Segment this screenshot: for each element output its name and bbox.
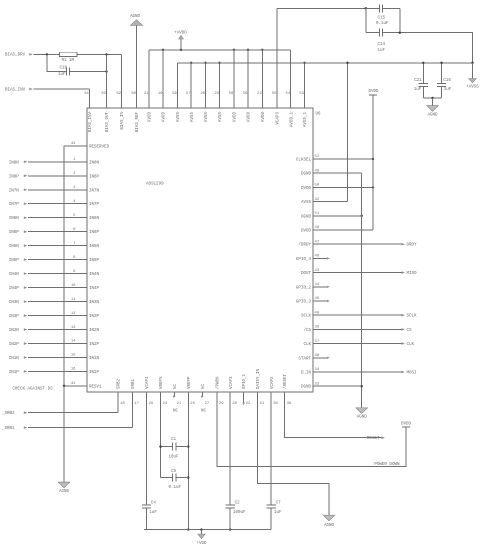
wire CLK out	[313, 342, 415, 347]
capacitor C14	[366, 29, 400, 53]
label POWER DOWN	[374, 463, 400, 467]
svg-text:AVSS: AVSS	[177, 112, 181, 123]
power +AVDD	[174, 31, 187, 49]
svg-text:CLK: CLK	[407, 343, 415, 347]
port IN4N	[9, 272, 87, 277]
svg-text:31: 31	[260, 402, 265, 406]
port IN8P	[9, 174, 87, 179]
port IN8N	[9, 160, 87, 165]
svg-text:18: 18	[120, 402, 125, 406]
wire GPIO_4 stub	[313, 257, 330, 259]
svg-text:D_IN: D_IN	[301, 372, 312, 376]
svg-text:VCAP2: VCAP2	[271, 376, 275, 389]
svg-text:GPIO_1: GPIO_1	[243, 373, 247, 389]
port IN5N	[9, 244, 87, 249]
svg-text:R1 1M: R1 1M	[62, 59, 75, 63]
node VDD rail bottom	[144, 528, 271, 530]
svg-text:0.1uF: 0.1uF	[376, 22, 389, 26]
svg-text:/CS: /CS	[303, 328, 311, 333]
port _SRB1	[1, 426, 132, 431]
svg-text:IN2N: IN2N	[9, 329, 20, 333]
svg-text:55: 55	[272, 92, 277, 96]
svg-text:63: 63	[101, 92, 106, 96]
svg-text:DGND: DGND	[301, 173, 312, 177]
svg-text:+AVDD: +AVDD	[174, 31, 187, 35]
svg-text:SRB2: SRB2	[118, 378, 122, 389]
wire PWDN	[217, 392, 406, 466]
svg-text:IN7P: IN7P	[9, 203, 20, 207]
svg-text:CLK: CLK	[303, 343, 311, 347]
port BIAS_INV	[5, 88, 33, 93]
svg-text:NC: NC	[202, 383, 206, 389]
wire pin 20	[204, 62, 206, 108]
wire D_IN out	[313, 371, 417, 376]
svg-text:59: 59	[243, 92, 248, 96]
wire pin 63	[106, 54, 108, 108]
svg-text:AGND: AGND	[357, 416, 368, 420]
svg-text:IN6N: IN6N	[9, 217, 20, 221]
svg-text:17: 17	[134, 402, 139, 406]
ground AGND bottom-left	[58, 482, 70, 494]
svg-text:CHECK AGAINST DS: CHECK AGAINST DS	[12, 387, 53, 391]
capacitor C16	[437, 62, 452, 98]
svg-text:IN6N: IN6N	[89, 217, 100, 221]
capacitor C1	[159, 438, 188, 459]
svg-text:IN3N: IN3N	[9, 301, 20, 305]
pin NC marks	[173, 392, 207, 413]
svg-text:C16: C16	[443, 79, 451, 83]
svg-text:61: 61	[84, 92, 89, 96]
svg-text:AVDD: AVDD	[163, 112, 167, 123]
svg-text:60: 60	[131, 92, 136, 96]
svg-text:IN3N: IN3N	[89, 301, 100, 305]
wire SCLK out	[313, 314, 417, 319]
wire pin 55 to C15/C14	[276, 8, 278, 108]
svg-text:IN7N: IN7N	[9, 189, 20, 193]
svg-text:ADS1299: ADS1299	[146, 183, 164, 187]
port _SRB2	[1, 411, 118, 416]
svg-text:100uF: 100uF	[233, 511, 246, 515]
svg-text:0.1uF: 0.1uF	[169, 486, 182, 490]
wire pin 56	[233, 49, 235, 108]
wire DGND33	[313, 385, 362, 387]
svg-text:IN2P: IN2P	[89, 343, 100, 347]
svg-text:36: 36	[287, 402, 292, 406]
svg-text:56: 56	[229, 92, 234, 96]
wire C14 to AVSS rail	[399, 32, 474, 65]
wire /DRDY out	[313, 243, 417, 248]
wire AVSS32	[313, 62, 349, 202]
capacitor C5	[161, 470, 189, 490]
port BIAS_DRV	[5, 53, 33, 57]
svg-text:AVSS_1: AVSS_1	[304, 112, 308, 128]
svg-text:_SRB1: _SRB1	[1, 427, 15, 431]
svg-text:SRB1: SRB1	[132, 378, 136, 389]
svg-text:AVSS: AVSS	[205, 112, 209, 123]
svg-text:22: 22	[246, 402, 251, 406]
svg-text:IN1N: IN1N	[89, 357, 100, 361]
wire VREFP	[187, 392, 189, 531]
svg-text:DGND: DGND	[301, 215, 312, 219]
wire /CS out	[313, 328, 412, 333]
svg-text:BIAS_DRV: BIAS_DRV	[5, 53, 26, 57]
wire pin 22	[261, 49, 263, 108]
ground AGND top-left	[130, 15, 143, 26]
capacitor C1b	[58, 66, 107, 77]
svg-text:SCLK: SCLK	[407, 315, 418, 319]
svg-text:GPIO_4: GPIO_4	[296, 258, 312, 262]
port IN6N	[9, 216, 87, 221]
svg-text:AGND: AGND	[427, 114, 438, 118]
svg-text:RESV1: RESV1	[89, 386, 102, 390]
svg-text:BIAS_IN: BIAS_IN	[121, 112, 125, 130]
svg-text:IN1P: IN1P	[89, 371, 100, 375]
svg-text:IN2P: IN2P	[9, 343, 20, 347]
wire VCAP2 to C7	[270, 392, 272, 504]
port IN7N	[9, 188, 87, 193]
svg-text:IN4N: IN4N	[9, 273, 20, 277]
svg-text:IN6P: IN6P	[9, 231, 20, 235]
svg-text:U6: U6	[316, 113, 322, 117]
svg-text:DGND: DGND	[301, 386, 312, 390]
wire pin 61	[89, 89, 91, 108]
svg-text:AGND: AGND	[324, 524, 335, 528]
wire DAISY_IN to AGND	[258, 392, 330, 515]
wire DGND51	[313, 215, 363, 217]
wire pin 23	[218, 62, 220, 108]
wire GPIO_2 stub	[313, 286, 330, 288]
svg-text:BIAS_REF: BIAS_REF	[136, 112, 140, 133]
svg-text:62: 62	[116, 92, 121, 96]
wire VCAP1 to C2	[229, 392, 231, 504]
svg-text:C2: C2	[235, 501, 241, 505]
svg-text:28: 28	[232, 402, 237, 406]
wire RESET out	[285, 392, 385, 441]
svg-text:VCAP1: VCAP1	[230, 376, 234, 389]
svg-text:RESET: RESET	[367, 437, 380, 441]
svg-text:C1: C1	[171, 438, 177, 442]
ground AGND daisy	[323, 515, 335, 528]
svg-text:MISO: MISO	[407, 272, 418, 276]
wire pin 54	[290, 50, 292, 108]
wire C1b to node	[105, 70, 107, 72]
port IN4P	[9, 286, 87, 291]
svg-text:23: 23	[214, 92, 219, 96]
capacitor C2	[226, 501, 246, 530]
wire DVDD48	[313, 229, 373, 231]
wire pin 53	[303, 62, 305, 108]
svg-text:C7: C7	[276, 501, 282, 505]
resistor R1	[60, 52, 78, 63]
wire SRB1	[131, 392, 133, 428]
svg-text:IN1N: IN1N	[9, 357, 20, 361]
svg-text:IN4N: IN4N	[89, 273, 100, 277]
svg-text:IN6P: IN6P	[89, 231, 100, 235]
svg-text:IN3P: IN3P	[9, 315, 20, 319]
svg-text:IN8P: IN8P	[89, 175, 100, 179]
svg-text:POWER DOWN: POWER DOWN	[374, 463, 400, 467]
wire pin 21	[148, 50, 150, 108]
svg-text:AVDD: AVDD	[248, 112, 252, 123]
svg-text:IN4P: IN4P	[9, 287, 20, 291]
svg-text:19: 19	[158, 92, 163, 96]
wire BIAS_DRV to R1	[34, 53, 60, 55]
wire pin 55 top	[277, 7, 367, 9]
wire RESERVED	[64, 146, 87, 386]
capacitor C15	[366, 4, 400, 26]
port IN3N	[9, 300, 87, 305]
svg-text:+VDD: +VDD	[196, 542, 207, 546]
power +AVSS	[466, 63, 479, 90]
svg-text:DRDY: DRDY	[407, 244, 418, 248]
svg-text:NC: NC	[201, 409, 207, 413]
svg-text:1uF: 1uF	[378, 49, 386, 53]
svg-text:1uF: 1uF	[149, 511, 157, 515]
svg-text:NC: NC	[173, 409, 179, 413]
capacitor C7	[267, 501, 282, 529]
svg-text:SCLK: SCLK	[301, 315, 312, 319]
svg-text:RESERVED: RESERVED	[89, 146, 110, 150]
node AVSS rail	[177, 62, 472, 64]
wire CLKSEL	[313, 158, 374, 160]
wire pin 58	[176, 63, 178, 108]
wire GPIO_3 stub	[313, 300, 330, 302]
svg-text:GPIO_2: GPIO_2	[296, 286, 312, 290]
svg-text:IN8P: IN8P	[9, 175, 20, 179]
svg-text:IN8N: IN8N	[89, 161, 100, 165]
wire VCAP4 to C4	[146, 392, 148, 504]
port IN2N	[9, 328, 87, 333]
wire DVDD50	[313, 186, 374, 188]
svg-text:AVDD: AVDD	[233, 112, 237, 123]
svg-text:+AVSS: +AVSS	[466, 86, 479, 90]
svg-text:BIAS_OUT: BIAS_OUT	[106, 112, 110, 133]
wire C14 left	[365, 8, 367, 32]
power DVDD tag bottom	[401, 423, 412, 428]
svg-text:IN7P: IN7P	[89, 203, 100, 207]
wire BIAS_INV to pin 61	[34, 88, 90, 90]
svg-text:C4: C4	[151, 501, 157, 505]
svg-text:1uF: 1uF	[274, 511, 282, 515]
svg-text:/DRDY: /DRDY	[298, 243, 311, 248]
node AVDD rail	[149, 49, 291, 51]
note CHECK AGAINST DS	[12, 387, 53, 391]
svg-text:_SRB2: _SRB2	[1, 412, 15, 416]
wire RESV1	[63, 385, 87, 483]
svg-text:22: 22	[257, 92, 262, 96]
wire pin 60 to AGND	[136, 25, 138, 108]
svg-text:IN1P: IN1P	[9, 371, 20, 375]
wire R1 to pin 62	[77, 53, 121, 55]
svg-text:/RESET: /RESET	[283, 373, 288, 389]
wire GPIO_1 stub	[242, 392, 244, 405]
port IN5P	[9, 258, 87, 263]
svg-text:START: START	[298, 357, 311, 361]
svg-text:IN4P: IN4P	[89, 287, 100, 291]
svg-text:C14: C14	[378, 43, 386, 47]
svg-text:26: 26	[149, 402, 154, 406]
svg-text:GPIO_3: GPIO_3	[296, 301, 312, 305]
svg-text:CLKSEL: CLKSEL	[296, 159, 312, 163]
svg-text:DVDD: DVDD	[301, 187, 312, 191]
svg-text:30: 30	[273, 402, 278, 406]
power +VDD	[196, 530, 207, 546]
svg-text:1uF: 1uF	[414, 88, 422, 92]
wire C15 right	[399, 8, 401, 32]
svg-text:AGND: AGND	[130, 15, 141, 19]
svg-text:AVSS: AVSS	[191, 112, 195, 123]
svg-text:MOSI: MOSI	[407, 372, 418, 376]
port IN6P	[9, 230, 87, 235]
svg-text:VCAP4: VCAP4	[146, 376, 150, 389]
port IN1N	[9, 356, 87, 361]
svg-text:C15: C15	[378, 16, 386, 20]
wire C1b branch	[47, 54, 65, 71]
svg-text:VREFN: VREFN	[160, 376, 164, 389]
ground AGND right	[356, 408, 368, 420]
svg-text:29: 29	[219, 402, 224, 406]
svg-text:21: 21	[144, 92, 149, 96]
svg-text:IN8N: IN8N	[9, 161, 20, 165]
svg-text:24: 24	[163, 402, 168, 406]
svg-text:IN3P: IN3P	[89, 315, 100, 319]
svg-text:20: 20	[200, 92, 205, 96]
svg-text:BIAS_INV: BIAS_INV	[89, 112, 93, 133]
wire caps join	[423, 97, 441, 99]
svg-text:54: 54	[286, 92, 291, 96]
svg-text:NC: NC	[174, 383, 178, 389]
ground AGND top-right	[427, 106, 439, 118]
wire START stub	[313, 357, 330, 359]
wire to AGND	[432, 98, 434, 106]
capacitor C21	[414, 62, 428, 98]
svg-text:C21: C21	[414, 79, 422, 83]
svg-text:25: 25	[190, 402, 195, 406]
svg-text:DVDD: DVDD	[368, 90, 379, 94]
svg-text:1uF: 1uF	[444, 88, 452, 92]
svg-text:58: 58	[172, 92, 177, 96]
port IN7P	[9, 202, 87, 207]
net DGND vertical	[361, 173, 363, 408]
capacitor C4	[142, 501, 157, 529]
svg-text:IN5N: IN5N	[9, 245, 20, 249]
svg-text:C1b: C1b	[60, 66, 68, 71]
svg-text:IN2N: IN2N	[89, 329, 100, 333]
svg-text:21: 21	[177, 402, 182, 406]
svg-text:DAISY_IN: DAISY_IN	[257, 368, 261, 389]
wire DGND49	[313, 172, 362, 174]
svg-text:AGND: AGND	[59, 490, 70, 494]
svg-text:AVSS: AVSS	[219, 112, 223, 123]
svg-text:53: 53	[299, 92, 304, 96]
port IN3P	[9, 314, 87, 319]
svg-text:1uF: 1uF	[58, 73, 66, 77]
svg-text:27: 27	[205, 402, 210, 406]
svg-text:VREFP: VREFP	[188, 376, 192, 389]
svg-text:BIAS_INV: BIAS_INV	[5, 89, 26, 93]
svg-text:C5: C5	[171, 470, 177, 474]
svg-text:DOUT: DOUT	[301, 272, 312, 276]
svg-text:AVDD: AVDD	[149, 112, 153, 123]
wire SRB2	[117, 392, 119, 413]
svg-text:IN7N: IN7N	[89, 189, 100, 193]
svg-text:IN5P: IN5P	[9, 259, 20, 263]
svg-text:VCAP3: VCAP3	[277, 112, 281, 125]
port IN1P	[9, 370, 87, 375]
wire pin 59	[247, 49, 249, 108]
svg-text:DVDD: DVDD	[301, 230, 312, 234]
svg-text:10uF: 10uF	[169, 455, 180, 459]
svg-text:AVSS: AVSS	[301, 201, 312, 205]
port IN2P	[9, 342, 87, 347]
wire DOUT out	[313, 271, 417, 276]
svg-text:AVDD: AVDD	[262, 112, 266, 123]
wire VREFN	[160, 392, 162, 478]
wire pin 62	[121, 54, 123, 108]
svg-text:DVDD: DVDD	[401, 423, 412, 427]
net DVDD vertical	[372, 95, 374, 230]
IC U6 ADS1299	[71, 92, 321, 406]
svg-text:CS: CS	[407, 329, 413, 333]
svg-text:/PWDN: /PWDN	[216, 376, 221, 389]
wire pin 57	[190, 62, 192, 108]
svg-text:IN5P: IN5P	[89, 259, 100, 263]
svg-text:AVDD_1: AVDD_1	[290, 112, 294, 128]
svg-text:57: 57	[186, 92, 191, 96]
wire pin 19	[162, 49, 164, 108]
power DVDD tag top	[368, 90, 379, 95]
svg-text:IN5N: IN5N	[89, 245, 100, 249]
